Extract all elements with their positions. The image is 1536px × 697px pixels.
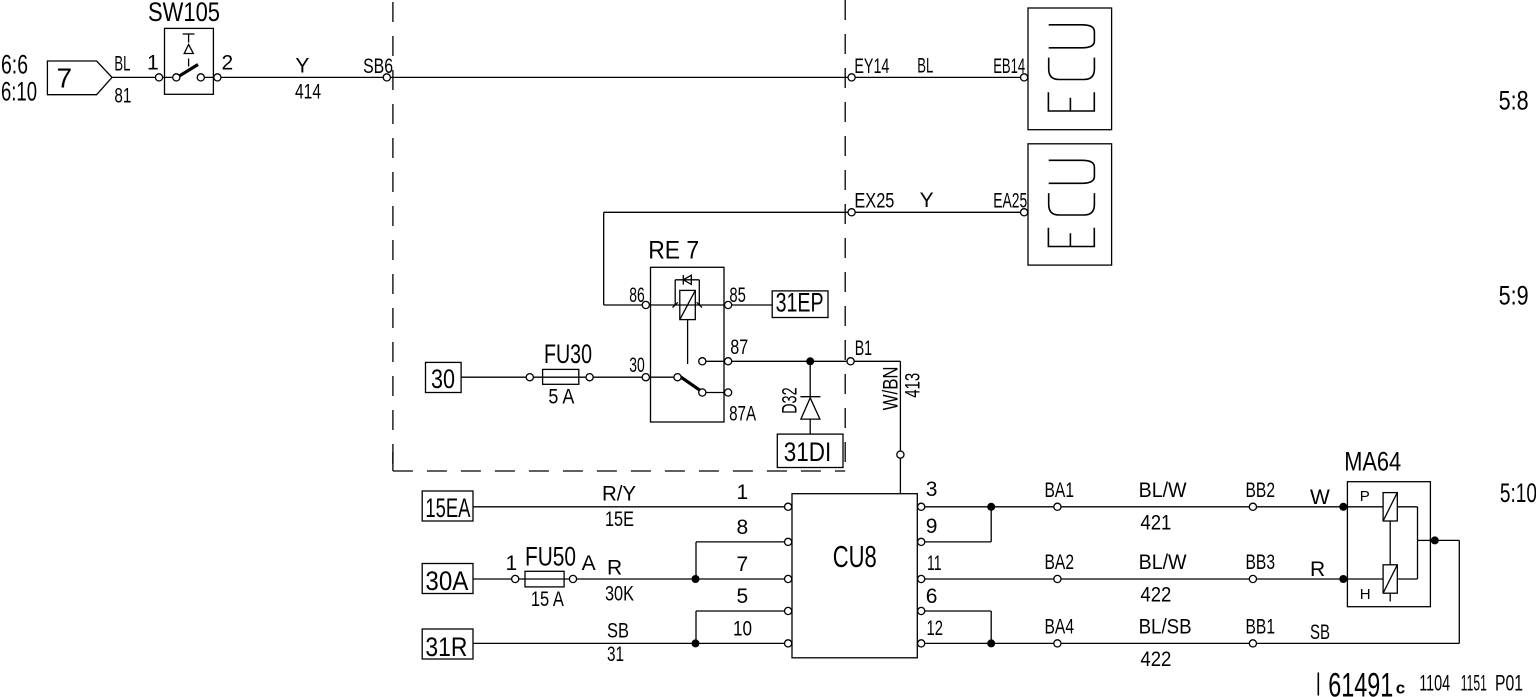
svg-text:30: 30 (431, 364, 455, 394)
svg-text:P: P (1360, 488, 1370, 505)
svg-text:413: 413 (901, 373, 924, 398)
svg-text:H: H (1360, 586, 1371, 603)
svg-text:10: 10 (733, 618, 752, 641)
svg-text:BL: BL (114, 52, 130, 75)
svg-text:W: W (1310, 486, 1330, 509)
svg-text:5:8: 5:8 (1499, 86, 1529, 116)
svg-text:15 A: 15 A (531, 588, 564, 611)
svg-text:1151: 1151 (1461, 671, 1487, 696)
svg-text:c: c (1396, 679, 1405, 697)
svg-text:R/Y: R/Y (602, 482, 636, 505)
svg-text:81: 81 (114, 85, 131, 108)
svg-text:CU8: CU8 (833, 539, 877, 574)
svg-text:86: 86 (629, 284, 645, 307)
svg-text:30K: 30K (605, 583, 634, 606)
svg-text:W/BN: W/BN (879, 366, 902, 410)
svg-text:31: 31 (607, 643, 624, 666)
svg-text:422: 422 (1140, 584, 1171, 607)
svg-text:7: 7 (737, 553, 749, 576)
svg-text:15EA: 15EA (425, 493, 470, 523)
svg-text:5: 5 (737, 585, 749, 608)
svg-text:2: 2 (222, 52, 234, 75)
svg-text:MA64: MA64 (1344, 447, 1401, 477)
svg-text:414: 414 (295, 80, 321, 103)
svg-text:BA2: BA2 (1045, 551, 1075, 574)
svg-text:A: A (582, 552, 596, 575)
svg-text:5 A: 5 A (548, 386, 574, 409)
svg-text:BL/SB: BL/SB (1139, 616, 1192, 639)
svg-text:BL: BL (917, 55, 933, 78)
svg-text:11: 11 (927, 552, 942, 575)
svg-text:422: 422 (1140, 648, 1171, 671)
svg-text:FU30: FU30 (544, 339, 592, 369)
svg-text:P01: P01 (1495, 671, 1523, 696)
svg-text:SB: SB (607, 620, 629, 643)
svg-text:Y: Y (920, 189, 934, 212)
svg-text:BB3: BB3 (1246, 551, 1276, 574)
svg-text:R: R (1310, 558, 1325, 581)
svg-text:61491: 61491 (1328, 667, 1393, 697)
svg-text:BB2: BB2 (1246, 479, 1276, 502)
svg-text:87A: 87A (729, 403, 756, 426)
svg-text:BB1: BB1 (1246, 616, 1276, 639)
svg-text:EA25: EA25 (993, 189, 1027, 212)
svg-text:9: 9 (926, 515, 938, 538)
svg-text:B1: B1 (855, 337, 872, 360)
svg-text:8: 8 (737, 516, 749, 539)
svg-text:31EP: 31EP (776, 288, 824, 318)
svg-text:RE 7: RE 7 (648, 237, 699, 265)
svg-text:SB: SB (1310, 621, 1330, 644)
svg-text:SW105: SW105 (148, 0, 220, 27)
svg-text:Y: Y (295, 54, 309, 77)
svg-text:31DI: 31DI (784, 437, 832, 467)
svg-text:BL/W: BL/W (1139, 551, 1187, 574)
svg-text:EX25: EX25 (854, 189, 894, 212)
svg-text:31R: 31R (425, 632, 467, 662)
svg-text:SB6: SB6 (363, 55, 393, 78)
svg-text:85: 85 (729, 284, 746, 307)
svg-text:R: R (607, 557, 622, 580)
svg-text:1: 1 (147, 52, 159, 75)
svg-text:D32: D32 (778, 387, 801, 414)
svg-text:1: 1 (737, 481, 749, 504)
svg-text:5:10: 5:10 (1500, 478, 1536, 508)
svg-text:3: 3 (926, 478, 938, 501)
svg-text:EB14: EB14 (993, 55, 1025, 78)
svg-text:FU50: FU50 (525, 542, 576, 572)
svg-text:6:10: 6:10 (1, 77, 37, 107)
svg-text:1104: 1104 (1419, 671, 1450, 696)
svg-text:7: 7 (57, 63, 73, 94)
svg-text:421: 421 (1140, 512, 1171, 535)
svg-text:30: 30 (629, 354, 645, 377)
svg-text:1: 1 (506, 552, 518, 575)
svg-text:5:9: 5:9 (1499, 281, 1529, 311)
svg-text:6:6: 6:6 (1, 49, 28, 79)
svg-text:EY14: EY14 (854, 55, 889, 78)
svg-text:87: 87 (730, 336, 748, 359)
svg-text:BL/W: BL/W (1139, 479, 1187, 502)
svg-text:BA1: BA1 (1045, 479, 1075, 502)
svg-text:12: 12 (927, 617, 944, 640)
svg-text:6: 6 (926, 585, 938, 608)
svg-text:BA4: BA4 (1045, 616, 1075, 639)
svg-text:30A: 30A (425, 566, 468, 596)
svg-text:15E: 15E (605, 508, 634, 531)
